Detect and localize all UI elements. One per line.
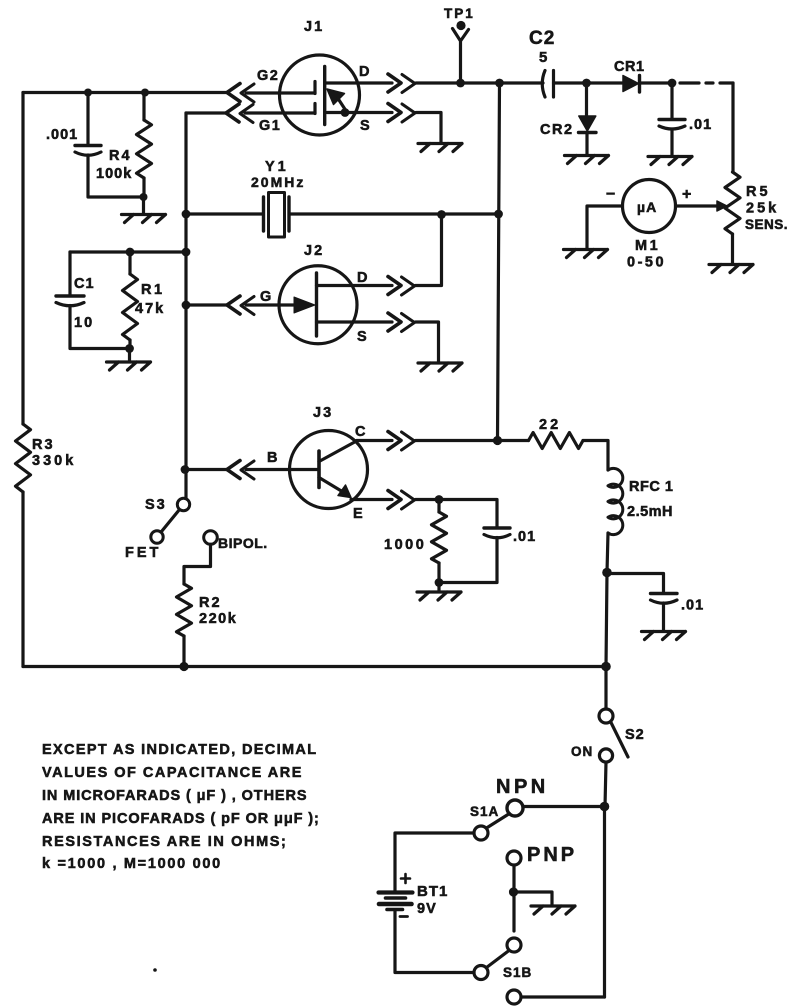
- svg-text:C2: C2: [529, 28, 555, 49]
- transistor J1 gate bar G2: [313, 82, 316, 94]
- wire J3 emitter: [351, 498, 392, 501]
- switch S2 ON contact: [599, 749, 612, 762]
- wire J3 emitter to node: [416, 498, 440, 501]
- svg-text:BIPOL.: BIPOL.: [218, 535, 268, 551]
- transistor J3 collector diagonal: [319, 441, 357, 462]
- ground PNP: [531, 906, 575, 914]
- op enclosure: transistor J2 circle: [279, 266, 357, 344]
- svg-text:CR2: CR2: [540, 122, 574, 138]
- ground below CR2: [565, 156, 609, 164]
- switch PNP contact: [507, 851, 521, 865]
- svg-text:G1: G1: [259, 118, 281, 134]
- wire J3 collector: [357, 439, 393, 442]
- svg-text:5: 5: [539, 49, 548, 66]
- battery plus sign: [401, 874, 410, 883]
- node junction .01 top right: [668, 79, 677, 88]
- resistor R1: [128, 252, 131, 274]
- svg-text:CR1: CR1: [614, 59, 645, 75]
- svg-text:G2: G2: [257, 68, 279, 84]
- node junction J2 drain riser: [437, 210, 446, 219]
- wire meter right lead with wiper arrow: [676, 204, 718, 207]
- resistor R4: [142, 93, 145, 121]
- svg-text:ARE IN PICOFARADS ( pF OR μμF: ARE IN PICOFARADS ( pF OR μμF );: [42, 811, 320, 827]
- svg-text:9V: 9V: [417, 901, 437, 917]
- svg-text:D: D: [357, 270, 368, 286]
- node junction bottom right: [601, 662, 611, 672]
- svg-text:R2: R2: [199, 595, 222, 611]
- resistor R2: [177, 584, 192, 636]
- transistor J2 channel: [315, 273, 318, 336]
- svg-text:R1: R1: [141, 282, 165, 298]
- svg-text:EXCEPT AS INDICATED, DECIMAL: EXCEPT AS INDICATED, DECIMAL: [42, 742, 317, 758]
- wire to CR1: [587, 81, 624, 84]
- switch S2 top contact: [599, 709, 613, 723]
- switch S1A battery contact: [474, 826, 488, 840]
- connector chevrons J2 D (right): [388, 277, 401, 295]
- wire G1 from bus corner: [186, 111, 315, 114]
- resistor R5: [725, 172, 740, 234]
- node junction .001 top: [84, 89, 92, 97]
- wire left bus upper: [21, 93, 24, 425]
- svg-text:J3: J3: [313, 405, 333, 421]
- connector chevrons J1 G2 (left): [227, 84, 240, 102]
- wire J3 base left: [186, 468, 227, 471]
- node junction TP1: [456, 79, 465, 88]
- ground below 1000: [437, 583, 440, 592]
- node junction R2 bottom: [179, 662, 188, 671]
- svg-text:D: D: [359, 64, 370, 80]
- wire PNP ground branch: [514, 892, 553, 906]
- node junction RFC1 bottom: [602, 568, 612, 578]
- wire battery bottom: [395, 911, 474, 973]
- svg-text:1000: 1000: [384, 537, 426, 553]
- svg-text:S2: S2: [625, 727, 645, 743]
- svg-text:20MHz: 20MHz: [251, 174, 305, 190]
- svg-text:S3: S3: [145, 497, 167, 513]
- stray mark dot: [153, 968, 157, 972]
- wire emitter node to cap: [439, 500, 497, 528]
- node junction crystal left: [182, 210, 191, 219]
- wire RFC1 to node: [607, 533, 608, 573]
- wire top-left horizontal: [23, 91, 226, 94]
- node junction R1 top: [126, 248, 135, 257]
- wire main vertical bus: [498, 83, 500, 440]
- crystal Y1: [262, 197, 265, 231]
- ground below R4: [142, 197, 145, 214]
- op enclosure: transistor J1 circle: [280, 55, 360, 135]
- ground below J2 source: [418, 363, 462, 371]
- wire CR1 to node: [640, 81, 673, 84]
- battery minus sign: [400, 915, 408, 918]
- wire battery top: [395, 833, 474, 891]
- svg-text:J1: J1: [304, 19, 324, 35]
- wire J3 base: [246, 468, 319, 471]
- svg-text:.001: .001: [46, 127, 78, 143]
- capacitor .001: [86, 93, 89, 146]
- switch S3 arm: [162, 510, 180, 532]
- connector chevrons J2 S (right): [388, 313, 401, 331]
- connector chevrons J1 S (right): [388, 104, 401, 122]
- switch S1B bottom contact: [507, 990, 521, 1004]
- op enclosure: transistor J3 circle: [290, 431, 368, 509]
- wire source to ground: [416, 113, 441, 144]
- svg-text:0-50: 0-50: [627, 255, 666, 271]
- resistor 1000: [437, 500, 440, 513]
- svg-text:330k: 330k: [32, 453, 76, 469]
- connector chevrons J1 G1 (left): [226, 104, 239, 122]
- node junction R4 bottom: [140, 193, 148, 201]
- connector chevrons J1 D (right): [388, 74, 401, 92]
- resistor 22: [498, 439, 529, 442]
- diode CR1: [623, 76, 639, 92]
- switch S1B top contact: [507, 938, 521, 952]
- svg-text:C1: C1: [74, 276, 95, 292]
- svg-text:S: S: [360, 118, 371, 134]
- wire dashed to right bus: [680, 81, 733, 84]
- svg-text:TP1: TP1: [444, 6, 475, 21]
- wire G1 bus vertical: [184, 113, 187, 498]
- node junction R1 wire / bus: [182, 248, 191, 257]
- wire J2 drain riser: [416, 215, 442, 286]
- capacitor C2: [542, 71, 545, 98]
- switch S2 arm: [611, 722, 629, 758]
- node junction main vertical top: [495, 79, 504, 88]
- resistor R3: [16, 424, 31, 492]
- capacitor .01 (RFC): [651, 592, 678, 595]
- ground below meter: [564, 250, 608, 258]
- transistor J2 gate arrow: [294, 297, 315, 313]
- svg-text:S: S: [357, 329, 368, 345]
- svg-text:FET: FET: [125, 545, 161, 561]
- svg-text:47k: 47k: [135, 301, 165, 317]
- node junction NPN: [600, 802, 610, 812]
- transistor J3 emitter diagonal with arrow: [319, 478, 343, 493]
- transistor J1 substrate arrow: [327, 89, 345, 105]
- svg-text:100k: 100k: [96, 166, 132, 182]
- capacitor C1: [68, 252, 71, 296]
- svg-text:R5: R5: [746, 184, 771, 200]
- wire ON to NPN node: [605, 762, 606, 806]
- wire right bus lower: [603, 807, 606, 998]
- svg-text:RESISTANCES ARE IN OHMS;: RESISTANCES ARE IN OHMS;: [42, 834, 287, 850]
- transistor J1 gate bar G1: [313, 104, 316, 114]
- switch S3 FET contact: [151, 531, 163, 543]
- node junction R4 top: [141, 89, 149, 97]
- wire to S2: [604, 667, 607, 710]
- node junction CR2: [582, 79, 591, 88]
- node junction emitter branch bottom: [435, 578, 444, 587]
- svg-text:R4: R4: [109, 148, 132, 164]
- wire J1 drain: [325, 81, 392, 84]
- switch S3 fixed contact: [177, 498, 189, 510]
- node junction J3 base / bus: [181, 465, 190, 474]
- svg-text:R3: R3: [32, 437, 55, 453]
- wire J2 gate left: [186, 303, 227, 306]
- connector chevrons J2 G (left): [227, 296, 240, 314]
- svg-text:µA: µA: [637, 199, 657, 215]
- switch S1B battery contact: [474, 966, 488, 980]
- wire J2 drain: [317, 284, 393, 287]
- battery BT1: [379, 890, 413, 894]
- svg-text:NPN: NPN: [496, 776, 549, 798]
- connector chevrons J3 E (right): [388, 491, 401, 509]
- svg-text:10: 10: [74, 315, 94, 331]
- switch S1A arm: [487, 814, 510, 829]
- switch S1A NPN contact: [507, 800, 523, 816]
- switch S1B arm: [487, 951, 510, 968]
- node junction PNP ground branch: [509, 887, 518, 896]
- node junction crystal / main bus: [494, 210, 503, 219]
- node junction emitter branch: [435, 495, 444, 504]
- transistor J1 channel: [323, 67, 326, 125]
- connector chevrons J3 C (right): [388, 432, 401, 450]
- svg-text:IN MICROFARADS ( μF ) , OTHERS: IN MICROFARADS ( μF ) , OTHERS: [42, 788, 307, 804]
- svg-text:B: B: [267, 450, 278, 466]
- ground below R5: [709, 265, 753, 273]
- wire G2: [246, 91, 315, 94]
- svg-text:25k: 25k: [746, 201, 779, 217]
- svg-text:2.5mH: 2.5mH: [627, 504, 673, 520]
- wire C2 to CR2 node: [554, 81, 587, 84]
- node junction J2 gate / bus: [182, 301, 191, 310]
- svg-text:S1A: S1A: [470, 804, 499, 819]
- wire right bus down to R5: [731, 83, 734, 172]
- svg-text:RFC 1: RFC 1: [629, 479, 673, 495]
- svg-text:.01: .01: [681, 598, 704, 614]
- svg-text:S1B: S1B: [503, 965, 532, 980]
- svg-text:J2: J2: [304, 243, 324, 259]
- switch S3 BIPOL contact: [204, 531, 218, 545]
- connector chevrons J3 B (left): [227, 461, 240, 479]
- ground below .01 RFC: [642, 632, 686, 640]
- wire crystal right: [290, 212, 499, 215]
- wire R1 C1 top: [70, 250, 186, 253]
- wire J3 collector to 22 node: [416, 439, 498, 442]
- wire BIPOL to R2: [184, 544, 211, 584]
- wire CR2 stem: [585, 83, 588, 116]
- inductor RFC1: [608, 468, 623, 534]
- svg-text:.01: .01: [513, 529, 536, 545]
- transistor J3 base bar: [317, 451, 321, 488]
- svg-text:SENS.: SENS.: [745, 217, 788, 232]
- wire NPN contact to node: [524, 805, 605, 808]
- svg-text:G: G: [260, 289, 272, 305]
- wire J1 source: [327, 111, 392, 114]
- wire RFC node to bottom: [606, 573, 607, 667]
- wire PNP down: [512, 865, 515, 931]
- svg-text:VALUES OF CAPACITANCE ARE: VALUES OF CAPACITANCE ARE: [42, 765, 303, 781]
- test point TP1: [453, 29, 469, 84]
- wire 22 to RFC1: [583, 441, 608, 471]
- svg-text:k =1000 , M=1000 000: k =1000 , M=1000 000: [42, 856, 222, 872]
- ground below .01: [648, 157, 692, 165]
- svg-text:E: E: [353, 506, 364, 522]
- capacitor .01 (emitter): [484, 526, 510, 529]
- svg-text:+: +: [682, 186, 692, 203]
- ground below R1: [128, 349, 131, 362]
- wire S1B bottom to right bus: [521, 995, 605, 998]
- wire drain to TP1 node: [416, 81, 543, 84]
- svg-text:M1: M1: [635, 238, 660, 254]
- wire J2 source: [317, 320, 393, 323]
- ground below J1 source: [418, 144, 462, 152]
- wire bottom horizontal: [23, 665, 606, 668]
- svg-text:.01: .01: [689, 117, 712, 133]
- meter M1 circle: [623, 180, 676, 233]
- capacitor .01 (top right): [670, 83, 673, 119]
- node junction R1 bottom: [125, 344, 134, 353]
- svg-text:−: −: [606, 186, 616, 203]
- diode CR2: [579, 116, 596, 131]
- wire J2 gate: [246, 303, 295, 306]
- transistor J1 substrate dot: [341, 108, 350, 117]
- svg-text:PNP: PNP: [527, 844, 577, 866]
- wire crystal left: [186, 212, 262, 215]
- svg-text:22: 22: [539, 417, 561, 433]
- node junction 22 resistor left: [493, 436, 502, 445]
- svg-text:BT1: BT1: [417, 883, 448, 900]
- svg-text:Y1: Y1: [265, 159, 289, 175]
- wire node to .01 cap: [607, 574, 664, 594]
- svg-text:C: C: [355, 424, 366, 440]
- wire meter left lead: [587, 206, 623, 249]
- wire J2 source to ground: [416, 322, 439, 363]
- svg-text:220k: 220k: [199, 611, 237, 627]
- wire left bus lower: [21, 492, 24, 667]
- svg-text:ON: ON: [571, 744, 593, 759]
